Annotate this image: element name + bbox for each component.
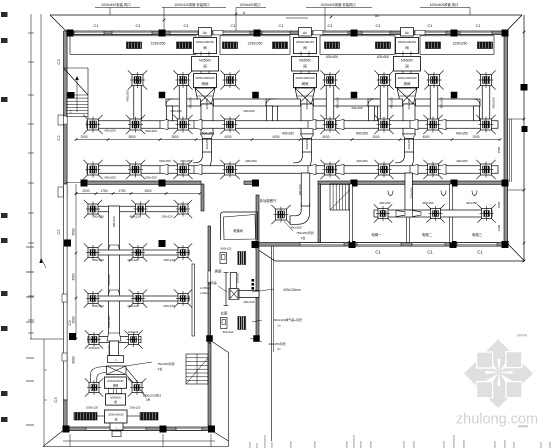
bottom grille right [140, 413, 158, 421]
svg-text:1750: 1750 [100, 189, 107, 193]
svg-text:C2: C2 [56, 229, 61, 235]
svg-text:C1: C1 [427, 23, 433, 28]
left wall lower openings [62, 294, 67, 302]
column wall y183 6 x505 [502, 180, 509, 187]
rooms duct diffuser 1 [378, 209, 388, 219]
AHU3 filter box [396, 38, 419, 54]
column wall y183 4 x354 [351, 180, 358, 187]
AHU2 header connectors down [267, 106, 273, 121]
toilet block left wall [208, 226, 211, 343]
row B diffuser 3 x183 [178, 164, 189, 175]
svg-text:600x250: 600x250 [351, 106, 362, 110]
row A diffuser 5 x330 [325, 119, 336, 130]
AHU3 connector stubs [402, 52, 404, 56]
hall SW eave vertical [228, 353, 230, 447]
bottom AHU fan box [106, 394, 126, 405]
svg-text:1000x300: 1000x300 [107, 315, 111, 328]
wall bottom [66, 427, 214, 431]
leader 750x250 bottom [126, 362, 152, 366]
svg-text:500x250: 500x250 [145, 129, 157, 133]
svg-text:2000: 2000 [472, 135, 479, 139]
svg-text:C3: C3 [53, 397, 58, 403]
svg-text:3500: 3500 [72, 273, 76, 280]
mens wall grilles [238, 252, 241, 265]
column top wall 1 x70 [67, 30, 74, 37]
right dim ticks [523, 31, 526, 34]
svg-text:400x250: 400x250 [356, 159, 368, 163]
svg-text:320x250: 320x250 [305, 98, 309, 109]
svg-text:400x250: 400x250 [456, 132, 468, 136]
hall SW eave diagonal top [212, 342, 229, 353]
svg-text:4000: 4000 [272, 135, 279, 139]
svg-text:750x250风管: 750x250风管 [157, 361, 175, 366]
right side tick lines [508, 118, 525, 120]
svg-text:400x250: 400x250 [440, 97, 444, 109]
row A left end cap [86, 121, 88, 128]
AHU2 wall stub box [313, 30, 323, 35]
branch row D duct [89, 250, 189, 255]
wall left lower [64, 184, 68, 400]
svg-text:200x120: 200x120 [163, 258, 175, 262]
row B tapers [160, 165, 168, 175]
svg-text:400x250: 400x250 [466, 201, 477, 205]
row A diffuser 4 x230 [225, 119, 236, 130]
right wing bottom wall windows [300, 243, 344, 246]
bottom wall windows [86, 427, 146, 430]
leader 1250x250 bottom [140, 390, 144, 393]
bottom AHU left riser diffuser [89, 383, 99, 393]
svg-text:400x250: 400x250 [104, 176, 116, 180]
svg-text:320x250: 320x250 [407, 98, 411, 109]
column top wall 5 x454 [451, 30, 458, 37]
AHU1 drop duct narrow [203, 139, 212, 153]
row A diffuser 2 x135.5 [130, 119, 141, 130]
left small dashes [26, 246, 34, 248]
AHU1 connector stubs [200, 52, 202, 56]
bottom AHU filter box [105, 410, 128, 423]
svg-text:C1: C1 [477, 250, 483, 255]
svg-text:200x120: 200x120 [130, 406, 141, 410]
svg-text:620x300: 620x300 [326, 55, 338, 59]
svg-text:200x120: 200x120 [236, 272, 240, 283]
toilet wall dampers [252, 279, 255, 282]
room partition wall 3 x451 [450, 184, 453, 243]
svg-text:2300: 2300 [497, 224, 501, 231]
womens wall grilles [238, 317, 241, 330]
bottom AHU transition [107, 333, 121, 341]
door gap left of wall y182 [66, 182, 81, 184]
wall top [66, 31, 508, 35]
svg-text:2台: 2台 [146, 397, 151, 402]
grille 3b [376, 42, 391, 49]
column top wall 2 x162 [159, 30, 166, 37]
hall duct elbow [290, 203, 310, 224]
svg-text:400x250: 400x250 [492, 97, 496, 109]
bottom AHU center duct [110, 341, 119, 356]
svg-text:1750: 1750 [118, 189, 125, 193]
row B diffuser 2 x135.5 [130, 164, 141, 175]
duct row B [87, 166, 498, 174]
right dimension line [523, 15, 525, 261]
bottom grille connectors [97, 415, 105, 417]
svg-text:200x120: 200x120 [128, 330, 139, 334]
svg-text:200x120: 200x120 [163, 304, 175, 308]
svg-text:3500: 3500 [171, 135, 178, 139]
svg-text:3500: 3500 [497, 201, 501, 208]
svg-text:C1: C1 [327, 23, 333, 28]
svg-text:200x120: 200x120 [161, 215, 173, 219]
partition wall x193 lower-left [192, 264, 194, 336]
column x162 y243 [159, 240, 166, 247]
svg-text:2000x400x20: 2000x400x20 [108, 413, 124, 417]
AHU1 header duct left arm [166, 99, 201, 106]
svg-text:620x300: 620x300 [377, 55, 389, 59]
column left wall y336 [69, 333, 76, 340]
column wing bottom 2 x352 [349, 241, 356, 248]
bottom AHU row F duct [88, 337, 141, 343]
svg-text:MS5000: MS5000 [199, 59, 211, 63]
row A diffuser 3 x183 [178, 119, 189, 130]
bottom AHU connector boxes [109, 389, 114, 394]
svg-text:400x250: 400x250 [390, 97, 394, 109]
AHU3 wall stub box [415, 30, 425, 35]
duct row C [88, 206, 186, 212]
bottom AHU coil box [105, 377, 127, 388]
svg-text:400x250: 400x250 [379, 201, 390, 205]
grille room 1 [70, 36, 196, 55]
column bottom wall 3 x211.5 [208, 426, 215, 433]
row D diffuser 1 [88, 248, 98, 258]
room partition wall 1 x351 [350, 184, 353, 243]
svg-text:2000: 2000 [372, 135, 379, 139]
svg-text:Ac: Ac [405, 31, 409, 35]
left dim arrow [39, 258, 42, 263]
mens fixtures [220, 253, 227, 264]
AHU2 header duct right arm [314, 99, 379, 106]
main duct transition 2 [108, 290, 121, 297]
bottom-left eave diagonal [43, 431, 63, 447]
svg-text:zhulong.com: zhulong.com [456, 412, 538, 428]
upper diffuser stub duct 4 x384 [380, 84, 388, 122]
svg-text:2x: 2x [277, 347, 281, 351]
svg-text:3500: 3500 [497, 146, 501, 153]
hall left wall x209 [208, 343, 211, 428]
svg-text:4000: 4000 [322, 135, 329, 139]
AHU2 drop duct narrow [303, 139, 312, 153]
upper diffuser 1 x137.5 [132, 75, 143, 86]
svg-text:400x250: 400x250 [243, 109, 255, 113]
svg-text:C1: C1 [230, 23, 236, 28]
rooms hanger hooks group [388, 191, 393, 196]
svg-text:电梯一: 电梯一 [371, 232, 382, 237]
column top wall 3 x257 [254, 30, 261, 37]
AHU2 coil box [294, 74, 317, 88]
branch row E duct [89, 296, 189, 301]
row B diffuser 4 x230 [225, 164, 236, 175]
svg-text:200x120: 200x120 [92, 304, 104, 308]
row E diffuser 3 [178, 294, 188, 304]
svg-text:电梯间: 电梯间 [233, 228, 243, 233]
grille 1b [177, 42, 192, 49]
svg-text:320x250: 320x250 [305, 138, 309, 149]
svg-text:400x250: 400x250 [290, 226, 302, 230]
svg-text:C1: C1 [375, 250, 381, 255]
svg-text:C1: C1 [278, 23, 284, 28]
interior wall y182 right segment [318, 181, 506, 184]
column left wall y243 [64, 240, 71, 247]
AHU1 header duct right arm [214, 99, 279, 106]
upper diffuser 7 x486 [481, 75, 492, 86]
svg-text:1250x250: 1250x250 [248, 42, 263, 46]
AHU3 drop duct narrow [405, 139, 414, 153]
stairs bottom hall [186, 354, 208, 384]
rooms duct tapers [396, 211, 405, 217]
grille 2a [223, 42, 238, 49]
AHU3 header duct left arm [368, 99, 403, 106]
AHU2 connector stubs [300, 52, 302, 56]
row C diffuser 2 [136, 204, 146, 214]
watermark pinwheel logo [464, 340, 533, 409]
row A diffuser 8 x486 [481, 119, 492, 130]
svg-text:2000: 2000 [82, 189, 89, 193]
column wall y183 2 x162 [159, 180, 166, 187]
svg-text:C1: C1 [475, 23, 481, 28]
upper diffuser 6 x434 [429, 75, 440, 86]
svg-text:400x250: 400x250 [189, 97, 193, 109]
svg-text:2000x400x60: 2000x400x60 [196, 40, 214, 44]
AHU1 coil box [194, 74, 217, 88]
column bottom wall 1 x66 [63, 426, 70, 433]
grille 1a [127, 42, 142, 49]
AHU3 header duct right arm [416, 99, 481, 106]
column top wall 6 x505 [502, 30, 509, 37]
svg-text:2000x1000x60: 2000x1000x60 [296, 76, 315, 80]
left wall window 2 [58, 187, 64, 197]
svg-text:阀: 阀 [115, 418, 118, 422]
svg-text:C1: C1 [93, 23, 99, 28]
rooms duct horizontal [374, 210, 492, 217]
svg-text:阀: 阀 [114, 400, 117, 404]
left margin text blobs [1, 12, 8, 17]
AHU1 Ac box [199, 28, 212, 37]
AHU2 Ac box [299, 28, 312, 37]
svg-text:1000x120风管 安装风口: 1000x120风管 安装风口 [174, 2, 209, 7]
svg-text:C2: C2 [56, 135, 61, 141]
svg-text:320x250: 320x250 [407, 138, 411, 149]
svg-text:400x250风管: 400x250风管 [268, 341, 286, 346]
grille room 4 [420, 36, 494, 55]
top eave line [50, 14, 522, 16]
column mid row 2 x255.5 [252, 92, 259, 99]
row B diffuser 6 x384 [379, 164, 390, 175]
AHU3 header connectors down [369, 106, 375, 121]
wall left upper [64, 31, 68, 184]
stairs upper-left [64, 68, 89, 118]
AHU2 elbow into row B [293, 152, 312, 172]
svg-text:1250x250: 1250x250 [453, 42, 468, 46]
svg-text:400x120: 400x120 [243, 300, 254, 304]
svg-text:A4: A4 [375, 14, 379, 18]
columns hall bottom corners [206, 335, 213, 342]
upper diffuser 5 x384 [379, 75, 390, 86]
column wing bottom 4 x505 [502, 241, 509, 248]
svg-text:500x250: 500x250 [145, 176, 157, 180]
wall right [504, 31, 508, 246]
toilet fan bowtie [229, 289, 239, 300]
svg-text:2000: 2000 [80, 135, 87, 139]
row E diffuser 2 [133, 294, 143, 304]
svg-text:3500: 3500 [144, 189, 151, 193]
svg-text:400x250: 400x250 [336, 97, 340, 109]
svg-text:p:30pa: p:30pa [200, 291, 209, 295]
bottom AHU right diagonal flex [126, 368, 138, 383]
svg-text:C1: C1 [375, 23, 381, 28]
svg-text:200x120: 200x120 [92, 215, 104, 219]
grille 2b [273, 42, 288, 49]
grille room 3 [320, 36, 395, 55]
row B diffuser 8 x486 [481, 164, 492, 175]
rooms duct diffuser 3 [482, 209, 492, 219]
svg-text:200x120: 200x120 [92, 258, 104, 262]
svg-text:阀阀: 阀阀 [113, 384, 119, 388]
svg-text:500x250: 500x250 [159, 159, 171, 163]
bottom AHU left elbow [91, 367, 107, 385]
svg-text:8000: 8000 [72, 356, 76, 363]
column wall y183 5 x454 [451, 180, 458, 187]
svg-text:600x120: 600x120 [221, 247, 232, 251]
column mid row 1 x162 [159, 92, 166, 99]
svg-text:阀阀: 阀阀 [404, 81, 411, 86]
column wing bottom 3 x453 [450, 241, 457, 248]
AHU1 elbow into row B [193, 152, 212, 172]
column wall y183 3 x255.5 [252, 180, 259, 187]
AHU2 fan box [292, 57, 319, 72]
svg-text:C1: C1 [135, 23, 141, 28]
AHU3 Ac box [401, 28, 414, 37]
AHU3 flex connector [397, 88, 417, 104]
svg-text:400x250: 400x250 [245, 159, 257, 163]
svg-text:电梯二: 电梯二 [422, 232, 433, 237]
watermark bottom edge letter tops [249, 442, 251, 448]
dimension line y193 [76, 193, 200, 195]
bottom AHU flange box [108, 356, 124, 363]
AHU2 drop transition [301, 134, 314, 139]
AHU2 flex connector [295, 88, 315, 104]
svg-text:500x250: 500x250 [170, 109, 182, 113]
svg-text:女厕: 女厕 [221, 311, 228, 316]
AHU1 header connectors down [167, 106, 173, 121]
svg-text:C1: C1 [183, 23, 189, 28]
womens fixtures [221, 318, 228, 329]
svg-text:2000x1000x60: 2000x1000x60 [196, 76, 215, 80]
svg-text:C3: C3 [56, 59, 61, 65]
AHU1 wall stub box [213, 30, 223, 35]
AHU3 drop transition [403, 134, 416, 139]
svg-text:男厕: 男厕 [215, 269, 222, 274]
corridor wall vertical x202 [201, 184, 204, 211]
row B diffuser 1 x93 [88, 164, 99, 175]
svg-text:600x120: 600x120 [223, 330, 234, 334]
svg-text:1000x400风管 风口: 1000x400风管 风口 [430, 2, 459, 7]
stairwell wall x319 [318, 184, 321, 243]
row B diffuser 5 x330 [325, 164, 336, 175]
duct row A [87, 121, 498, 129]
left terrace step line [30, 338, 64, 340]
row A diffuser 1 x93 [88, 119, 99, 130]
AHU1 flex connector [195, 88, 215, 104]
AHU2 header duct left arm [266, 99, 301, 106]
svg-text:排风扇: 排风扇 [208, 280, 217, 285]
bottom AHU flex connector [107, 366, 127, 375]
grille 3a [325, 42, 340, 49]
AHU2 filter box [294, 38, 317, 54]
svg-text:3500: 3500 [72, 228, 76, 235]
interior wall y182 mid segment [244, 181, 258, 184]
svg-text:400x120: 400x120 [127, 258, 139, 262]
svg-text:400x250: 400x250 [456, 159, 468, 163]
grille 4b [478, 42, 493, 49]
svg-text:2000x1000x60: 2000x1000x60 [107, 380, 124, 383]
svg-text:300x250: 300x250 [180, 159, 192, 163]
svg-text:多功能餐厅: 多功能餐厅 [260, 198, 278, 203]
bottom AHU tiny box [112, 431, 121, 437]
AHU2 supply tee vertical [301, 104, 313, 134]
column stairs upper-left [68, 92, 75, 99]
toilet mid partition [225, 273, 227, 306]
svg-text:C1: C1 [427, 250, 433, 255]
svg-text:400x250: 400x250 [282, 132, 294, 136]
svg-text:1000x400安装 风口: 1000x400安装 风口 [101, 2, 130, 7]
row A diffuser 6 x384 [379, 119, 390, 130]
svg-text:400x250: 400x250 [126, 90, 130, 102]
svg-text:1250x250: 1250x250 [151, 42, 166, 46]
AHU1 fan box [192, 57, 219, 72]
elevator shaft box [221, 212, 258, 240]
bottom grille left [74, 413, 97, 421]
AHU1 filter box [194, 38, 217, 54]
svg-text:3500: 3500 [128, 135, 135, 139]
svg-text:○: ○ [116, 426, 118, 430]
svg-text:500x250: 500x250 [422, 201, 433, 205]
svg-text:400x250: 400x250 [104, 129, 116, 133]
main duct transition 1 [108, 245, 121, 252]
svg-text:4000: 4000 [224, 135, 231, 139]
main vertical duct lower-left wing [109, 206, 120, 341]
top leader horizontal line [286, 17, 308, 19]
svg-text:2000x1000x60: 2000x1000x60 [398, 76, 417, 80]
svg-text:400x250: 400x250 [298, 184, 302, 195]
left dim vertical x76 [75, 184, 77, 340]
left wall window 1 [58, 115, 64, 125]
svg-text:电梯三: 电梯三 [472, 232, 483, 237]
svg-text:1000x120: 1000x120 [86, 406, 99, 410]
svg-text:1000x400风口: 1000x400风口 [239, 3, 260, 7]
svg-text:2000x400x60: 2000x400x60 [296, 40, 314, 44]
AHU3 supply tee vertical [403, 104, 415, 134]
AHU3 elbow into row B [395, 152, 414, 172]
bottom eave line 2 [43, 446, 229, 448]
left dimension line A [30, 14, 32, 339]
upper diffuser stub duct 3 x330 [326, 84, 334, 122]
AHU3 fan box [394, 57, 421, 72]
row A tapers group [160, 120, 168, 130]
hall SW eave diagonal bottom [212, 431, 229, 442]
column mid row 3 x354 [351, 92, 358, 99]
svg-text:1000x400风管 安装风口: 1000x400风管 安装风口 [320, 2, 355, 7]
watermark dash lower [518, 425, 528, 427]
svg-text:2台: 2台 [301, 235, 306, 240]
row D diffuser 3 [178, 248, 188, 258]
